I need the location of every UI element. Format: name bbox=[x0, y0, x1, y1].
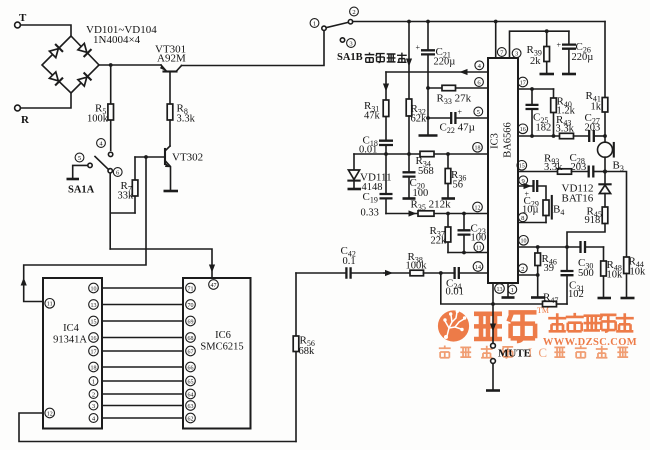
svg-text:IC: IC bbox=[528, 345, 553, 360]
svg-text:0.1: 0.1 bbox=[343, 256, 356, 267]
pin label 3 SA1B bbox=[347, 39, 356, 48]
svg-text:1: 1 bbox=[92, 379, 95, 386]
svg-text:16: 16 bbox=[91, 336, 97, 342]
ground R39 bbox=[540, 73, 555, 76]
svg-text:+: + bbox=[557, 41, 562, 50]
wire IC3 pin8 bbox=[518, 222, 546, 224]
wire IC3 pin18 bus bbox=[354, 153, 488, 155]
pin label 4 bbox=[475, 61, 484, 70]
wire IC4-IC6 row3 bbox=[102, 320, 183, 322]
svg-text:1k: 1k bbox=[591, 102, 602, 113]
svg-text:70: 70 bbox=[188, 303, 194, 309]
svg-text:11: 11 bbox=[476, 245, 482, 251]
wire IC3 pin9 with arrow bbox=[518, 185, 533, 187]
svg-text:63: 63 bbox=[188, 404, 194, 410]
capacitor C42 and pin14 wire bbox=[296, 245, 384, 279]
svg-text:2: 2 bbox=[352, 9, 355, 16]
ground C26 bbox=[562, 73, 576, 76]
arrow up on IC4 pin11 wire bbox=[21, 278, 27, 286]
node pin17/C25 bbox=[530, 87, 534, 91]
svg-text:17: 17 bbox=[91, 349, 97, 355]
svg-text:64: 64 bbox=[188, 392, 194, 398]
node pin12/C23 bbox=[462, 212, 466, 216]
diode VD112 bbox=[562, 172, 611, 208]
svg-text:2: 2 bbox=[521, 266, 524, 273]
wire junction to R44 bbox=[605, 172, 627, 258]
ground R46/pin2 bbox=[531, 296, 545, 299]
svg-text:10k: 10k bbox=[630, 267, 647, 278]
svg-text:39: 39 bbox=[544, 263, 555, 274]
pin label 13 bbox=[495, 284, 505, 294]
svg-text:VT302: VT302 bbox=[172, 152, 203, 164]
wire IC4-IC6 row5 bbox=[102, 350, 183, 352]
svg-text:T: T bbox=[19, 12, 27, 24]
pin label 13 IC4 bbox=[89, 300, 99, 310]
resistor R45 bbox=[567, 206, 608, 248]
svg-text:10: 10 bbox=[91, 286, 97, 292]
pin label 1 bbox=[508, 285, 517, 294]
resistor R34 bbox=[416, 151, 435, 177]
svg-text:220µ: 220µ bbox=[434, 57, 456, 68]
pin label 18 IC4 bbox=[89, 362, 99, 372]
wire IC3 pin4 line bbox=[386, 71, 488, 73]
svg-text:15: 15 bbox=[91, 319, 97, 325]
node pin13/mute line bbox=[491, 302, 495, 306]
node R38/C24 branch bbox=[439, 271, 443, 275]
pin label 15 bbox=[517, 161, 527, 171]
resistor R46 bbox=[535, 247, 557, 297]
svg-text:1: 1 bbox=[313, 21, 316, 28]
svg-text:56: 56 bbox=[453, 180, 464, 191]
svg-text:568: 568 bbox=[418, 166, 434, 177]
wire SA1A contact6 down and to R7 bottom bbox=[110, 173, 135, 249]
svg-text:100k: 100k bbox=[87, 114, 109, 125]
capacitor C22 bbox=[428, 108, 488, 136]
ground C20 bbox=[403, 197, 416, 200]
wire IC3 pin10 bbox=[518, 246, 604, 248]
svg-text:3.3k: 3.3k bbox=[544, 162, 563, 173]
switch SA1A bbox=[68, 152, 113, 195]
pin label 66 IC6 bbox=[186, 362, 196, 372]
resistor R56 bbox=[293, 273, 315, 442]
pin label 12 bbox=[473, 202, 483, 212]
wire IC4-IC6 row10 bbox=[102, 417, 183, 419]
svg-text:IC3: IC3 bbox=[490, 133, 501, 149]
svg-text:R33 27k: R33 27k bbox=[437, 93, 472, 107]
svg-text:BA6566: BA6566 bbox=[503, 122, 514, 158]
pin label 1 SA1B bbox=[310, 19, 319, 28]
wire IC4 pin12 to bottom rail bbox=[19, 413, 296, 442]
watermark chars 电子市场网 bbox=[548, 313, 634, 332]
pin label 10 IC4 bbox=[89, 283, 99, 293]
svg-text:SMC6215: SMC6215 bbox=[200, 342, 243, 353]
svg-text:3.3k: 3.3k bbox=[177, 114, 196, 125]
svg-text:10: 10 bbox=[521, 239, 527, 245]
ground VD111 bbox=[348, 188, 362, 191]
ground MUTE bbox=[486, 389, 500, 392]
wire IC3 pin16 bbox=[518, 135, 560, 137]
transistor VT301 bbox=[155, 44, 186, 105]
pin label 70 IC6 bbox=[186, 300, 196, 310]
svg-text:220µ: 220µ bbox=[572, 52, 594, 63]
diode VD111 bbox=[348, 154, 391, 193]
svg-text:2k: 2k bbox=[530, 56, 541, 67]
svg-text:18: 18 bbox=[91, 365, 97, 371]
pin label 17 bbox=[518, 77, 528, 87]
svg-text:+: + bbox=[458, 108, 463, 117]
svg-text:62k: 62k bbox=[411, 114, 428, 125]
watermark logo circle bbox=[438, 310, 469, 342]
wire IC3 pin11 bbox=[448, 252, 488, 254]
node C21/C22 bbox=[426, 116, 430, 120]
svg-text:66: 66 bbox=[188, 365, 194, 371]
svg-text:IC4: IC4 bbox=[63, 323, 80, 334]
arrow right on pin12 wire bbox=[409, 210, 417, 216]
svg-text:91341A: 91341A bbox=[53, 335, 87, 346]
IC6 SMC6215 bbox=[183, 278, 251, 429]
resistor R32 bbox=[406, 99, 427, 154]
ground SA1A contact 5 bbox=[73, 165, 88, 178]
resistor R33 bbox=[428, 85, 488, 106]
svg-text:22k: 22k bbox=[431, 236, 448, 247]
resistor R93 bbox=[544, 153, 589, 175]
resistor R47 on mute line bbox=[543, 292, 568, 307]
svg-text:10µ: 10µ bbox=[522, 205, 539, 216]
wire top supply rail bbox=[353, 21, 605, 23]
transistor VT302 bbox=[165, 146, 203, 190]
wire signal branch down to pin4 line bbox=[408, 22, 410, 100]
pin label 1 IC4 bbox=[89, 377, 98, 386]
svg-text:0.33: 0.33 bbox=[361, 208, 379, 219]
wire VT302 base net down to IC4 pin11 bbox=[24, 157, 146, 302]
wire bridge output to VT301 base bbox=[99, 64, 161, 66]
wire IC3 pin2 bbox=[518, 274, 538, 276]
arrow down on pin13 wire bbox=[490, 324, 496, 332]
terminal R bbox=[15, 105, 30, 126]
IC3 BA6566 bbox=[488, 58, 518, 283]
capacitor C25 bbox=[526, 89, 552, 136]
node rail/C21 bbox=[426, 20, 430, 24]
svg-text:R47: R47 bbox=[543, 292, 558, 306]
diode bridge VD101-VD104 bbox=[42, 24, 157, 93]
resistor R35 and IC3 pin12 wire bbox=[386, 199, 488, 217]
pin label 11 bbox=[474, 242, 484, 252]
wire IC3 pin13 down bbox=[492, 283, 494, 343]
svg-text:69: 69 bbox=[188, 319, 194, 325]
pin label 68 IC6 bbox=[186, 333, 196, 343]
svg-text:SA1A: SA1A bbox=[68, 185, 95, 196]
pin label 2 SA1B bbox=[350, 7, 359, 16]
label 受话信号 bbox=[365, 52, 407, 62]
pin label 16 bbox=[518, 124, 528, 134]
resistor R36 bbox=[445, 154, 466, 198]
wire IC4-IC6 row2 bbox=[102, 304, 183, 306]
arrow down on R31 wire bbox=[383, 84, 389, 92]
node pin10/R46 bbox=[536, 245, 540, 249]
pin label 47 IC6 bbox=[209, 280, 219, 290]
svg-text:C22 47µ: C22 47µ bbox=[440, 122, 475, 136]
microphone B3 bbox=[598, 136, 624, 173]
capacitor C21 bbox=[416, 22, 456, 135]
svg-text:A92M: A92M bbox=[157, 53, 186, 65]
pin label 3 IC4 bbox=[89, 401, 98, 410]
svg-text:62: 62 bbox=[188, 416, 194, 422]
svg-text:15: 15 bbox=[519, 164, 525, 170]
resistor R48 bbox=[601, 247, 623, 298]
svg-text:1: 1 bbox=[511, 287, 514, 294]
pin label 2 bbox=[518, 264, 527, 273]
pin label 63 IC6 bbox=[186, 401, 196, 411]
pin label 62 IC6 bbox=[186, 413, 196, 423]
arrow left on pin4 wire bbox=[460, 69, 468, 75]
svg-text:47: 47 bbox=[211, 283, 217, 289]
wire IC3 pin3 bbox=[510, 31, 569, 58]
wire VT302 base bbox=[135, 156, 165, 158]
svg-text:14: 14 bbox=[475, 265, 481, 271]
node bus/R32 bbox=[407, 152, 411, 156]
pin label 12 IC4 bbox=[45, 408, 55, 418]
node bridge/R5 junction bbox=[109, 63, 113, 67]
capacitor C24 bbox=[446, 267, 489, 298]
switch MUTE bbox=[491, 343, 531, 390]
wire IC4-IC6 row9 bbox=[102, 405, 183, 407]
node pin11/C23 bbox=[462, 251, 466, 255]
svg-text:R35 212k: R35 212k bbox=[411, 199, 452, 213]
capacitor C23 bbox=[458, 214, 487, 253]
svg-text:2: 2 bbox=[92, 392, 95, 399]
capacitor C30 bbox=[578, 241, 594, 279]
wire IC4-IC6 row4 bbox=[102, 337, 183, 339]
node pin3 line / R39 bbox=[545, 29, 549, 33]
resistor R40 bbox=[551, 89, 576, 136]
capacitor C19 bbox=[361, 154, 393, 219]
ground R48 bbox=[598, 297, 612, 300]
svg-text:WWW.DZSC.COM: WWW.DZSC.COM bbox=[543, 337, 637, 348]
pin label 7 bbox=[497, 48, 506, 57]
resistor R38 bbox=[406, 251, 455, 276]
pin label 5 bbox=[474, 107, 483, 116]
node pin16/R40 bbox=[552, 134, 556, 138]
wire R to bridge bbox=[20, 93, 71, 108]
pin label 71 IC6 bbox=[186, 283, 196, 293]
wire into R38 bbox=[384, 272, 410, 274]
resistor R31 bbox=[364, 72, 389, 140]
node C21/R33 bbox=[426, 86, 430, 90]
svg-text:SA1B: SA1B bbox=[337, 52, 363, 63]
svg-text:67: 67 bbox=[188, 349, 194, 355]
svg-text:47k: 47k bbox=[364, 111, 381, 122]
svg-text:12: 12 bbox=[475, 205, 481, 211]
svg-text:13: 13 bbox=[497, 287, 503, 293]
pin label 2 IC4 bbox=[89, 390, 98, 399]
wire to IC6 pin 47 bbox=[110, 249, 212, 278]
resistor R41 bbox=[586, 22, 608, 137]
pin label 17 IC4 bbox=[89, 346, 99, 356]
svg-text:MUTE: MUTE bbox=[498, 348, 531, 360]
wire T to bridge bbox=[20, 25, 71, 36]
capacitor C29 bbox=[522, 180, 546, 216]
svg-text:182: 182 bbox=[536, 123, 552, 134]
wire IC3 pin1 to ground bbox=[507, 283, 509, 297]
resistor R7 bbox=[118, 157, 138, 213]
svg-text:IC6: IC6 bbox=[215, 330, 231, 341]
IC4 91341A bbox=[43, 278, 102, 429]
svg-text:12: 12 bbox=[47, 411, 53, 417]
pin label 4 IC4 bbox=[89, 414, 98, 423]
node B3 top junction bbox=[603, 134, 607, 138]
pin label 67 IC6 bbox=[186, 346, 196, 356]
svg-text:R: R bbox=[21, 114, 30, 126]
node pin2/R46 ground branch bbox=[536, 273, 540, 277]
resistor R5 bbox=[87, 65, 114, 150]
svg-text:10k: 10k bbox=[607, 270, 624, 281]
wire IC4-IC6 row7 bbox=[102, 380, 183, 382]
svg-text:68: 68 bbox=[188, 336, 194, 342]
pin label 4 SA1A bbox=[97, 139, 106, 148]
pin label 3 bbox=[512, 49, 521, 58]
pin label 11 IC4 bbox=[45, 299, 55, 309]
svg-text:500: 500 bbox=[578, 268, 594, 279]
pin label 15 IC4 bbox=[89, 316, 99, 326]
pin label 9 bbox=[519, 176, 528, 185]
svg-text:203: 203 bbox=[571, 162, 587, 173]
wire IC4-IC6 row1 bbox=[102, 287, 183, 289]
ground C21 branch bbox=[419, 134, 438, 137]
watermark big chars 维库 bbox=[474, 312, 537, 341]
svg-text:100k: 100k bbox=[406, 261, 428, 272]
svg-text:11: 11 bbox=[47, 302, 53, 308]
capacitor C26 bbox=[557, 31, 594, 73]
wire IC3 pin7 bbox=[495, 22, 497, 59]
svg-text:918: 918 bbox=[585, 215, 601, 226]
resistor R39 bbox=[527, 31, 550, 73]
node pin12/R37 bbox=[446, 212, 450, 216]
watermark slogan 全球最大IC采购网站 bbox=[439, 346, 513, 358]
svg-text:13: 13 bbox=[91, 303, 97, 309]
wire VT301 emitter to SA1B contact 1 bbox=[182, 31, 325, 66]
pin label 69 IC6 bbox=[186, 316, 196, 326]
svg-text:B4: B4 bbox=[553, 204, 564, 218]
node bus/R36 bbox=[446, 152, 450, 156]
svg-text:203: 203 bbox=[585, 123, 601, 134]
receiver B4 bbox=[543, 196, 564, 223]
svg-text:0.01: 0.01 bbox=[446, 287, 464, 298]
capacitor C20 bbox=[403, 154, 429, 199]
resistor R43 bbox=[556, 114, 590, 139]
svg-text:71: 71 bbox=[188, 286, 194, 292]
terminal T bbox=[15, 12, 27, 28]
pin label 16 IC4 bbox=[89, 333, 99, 343]
pin label 5 SA1A bbox=[75, 153, 84, 162]
pin label 65 IC6 bbox=[186, 376, 196, 386]
svg-text:18: 18 bbox=[475, 146, 481, 152]
wire IC3 pin15 bbox=[518, 171, 558, 173]
svg-text:16: 16 bbox=[520, 127, 526, 133]
wire IC4-IC6 row8 bbox=[102, 393, 183, 395]
ground R44 bbox=[621, 297, 635, 300]
wire C24 node down to mute line bbox=[441, 273, 543, 304]
ground VT302 emitter bbox=[164, 190, 179, 193]
pin label 18 bbox=[473, 143, 483, 153]
pin label 6 bbox=[475, 78, 484, 87]
node VT302 base junction bbox=[144, 155, 148, 159]
svg-text:65: 65 bbox=[188, 379, 194, 385]
arrow right on C42 wire bbox=[385, 270, 393, 276]
node rail/pin7 bbox=[494, 20, 498, 24]
switch SA1B bbox=[322, 20, 363, 64]
svg-text:102: 102 bbox=[568, 289, 584, 300]
svg-text:1N4004×4: 1N4004×4 bbox=[93, 34, 141, 46]
svg-text:3.3k: 3.3k bbox=[556, 124, 575, 135]
ground R36 bbox=[442, 197, 456, 200]
resistor R44 bbox=[624, 256, 646, 298]
node rail/signal branch bbox=[407, 20, 411, 24]
svg-text:C19: C19 bbox=[363, 191, 378, 205]
resistor R8 bbox=[167, 103, 195, 147]
node bus/C18 bbox=[384, 152, 388, 156]
capacitor C28 bbox=[570, 152, 606, 178]
node pin10/C31 bbox=[565, 245, 569, 249]
arrow down on signal wire bbox=[406, 59, 412, 67]
svg-text:68k: 68k bbox=[299, 346, 316, 357]
svg-text:BAT16: BAT16 bbox=[562, 193, 594, 205]
capacitor C18 bbox=[359, 135, 393, 156]
wire IC4-IC6 row6 bbox=[102, 366, 183, 368]
svg-text:33k: 33k bbox=[118, 191, 135, 202]
capacitor C31 bbox=[561, 247, 585, 304]
arrow into IC6 pin47 bbox=[209, 265, 215, 273]
svg-text:+: + bbox=[416, 43, 421, 52]
pin label 10 bbox=[519, 236, 529, 246]
capacitor C27 bbox=[585, 112, 606, 142]
pin label 14 bbox=[473, 262, 483, 272]
node B3 bottom junction bbox=[603, 169, 607, 173]
resistor R37 bbox=[430, 214, 451, 253]
pin label 8 bbox=[518, 213, 527, 222]
pin label 6 SA1A bbox=[113, 168, 122, 177]
svg-text:17: 17 bbox=[520, 80, 526, 86]
wire IC3 pin17 bbox=[518, 88, 554, 90]
pin label 64 IC6 bbox=[186, 389, 196, 399]
node pin16/C25 bbox=[530, 134, 534, 138]
